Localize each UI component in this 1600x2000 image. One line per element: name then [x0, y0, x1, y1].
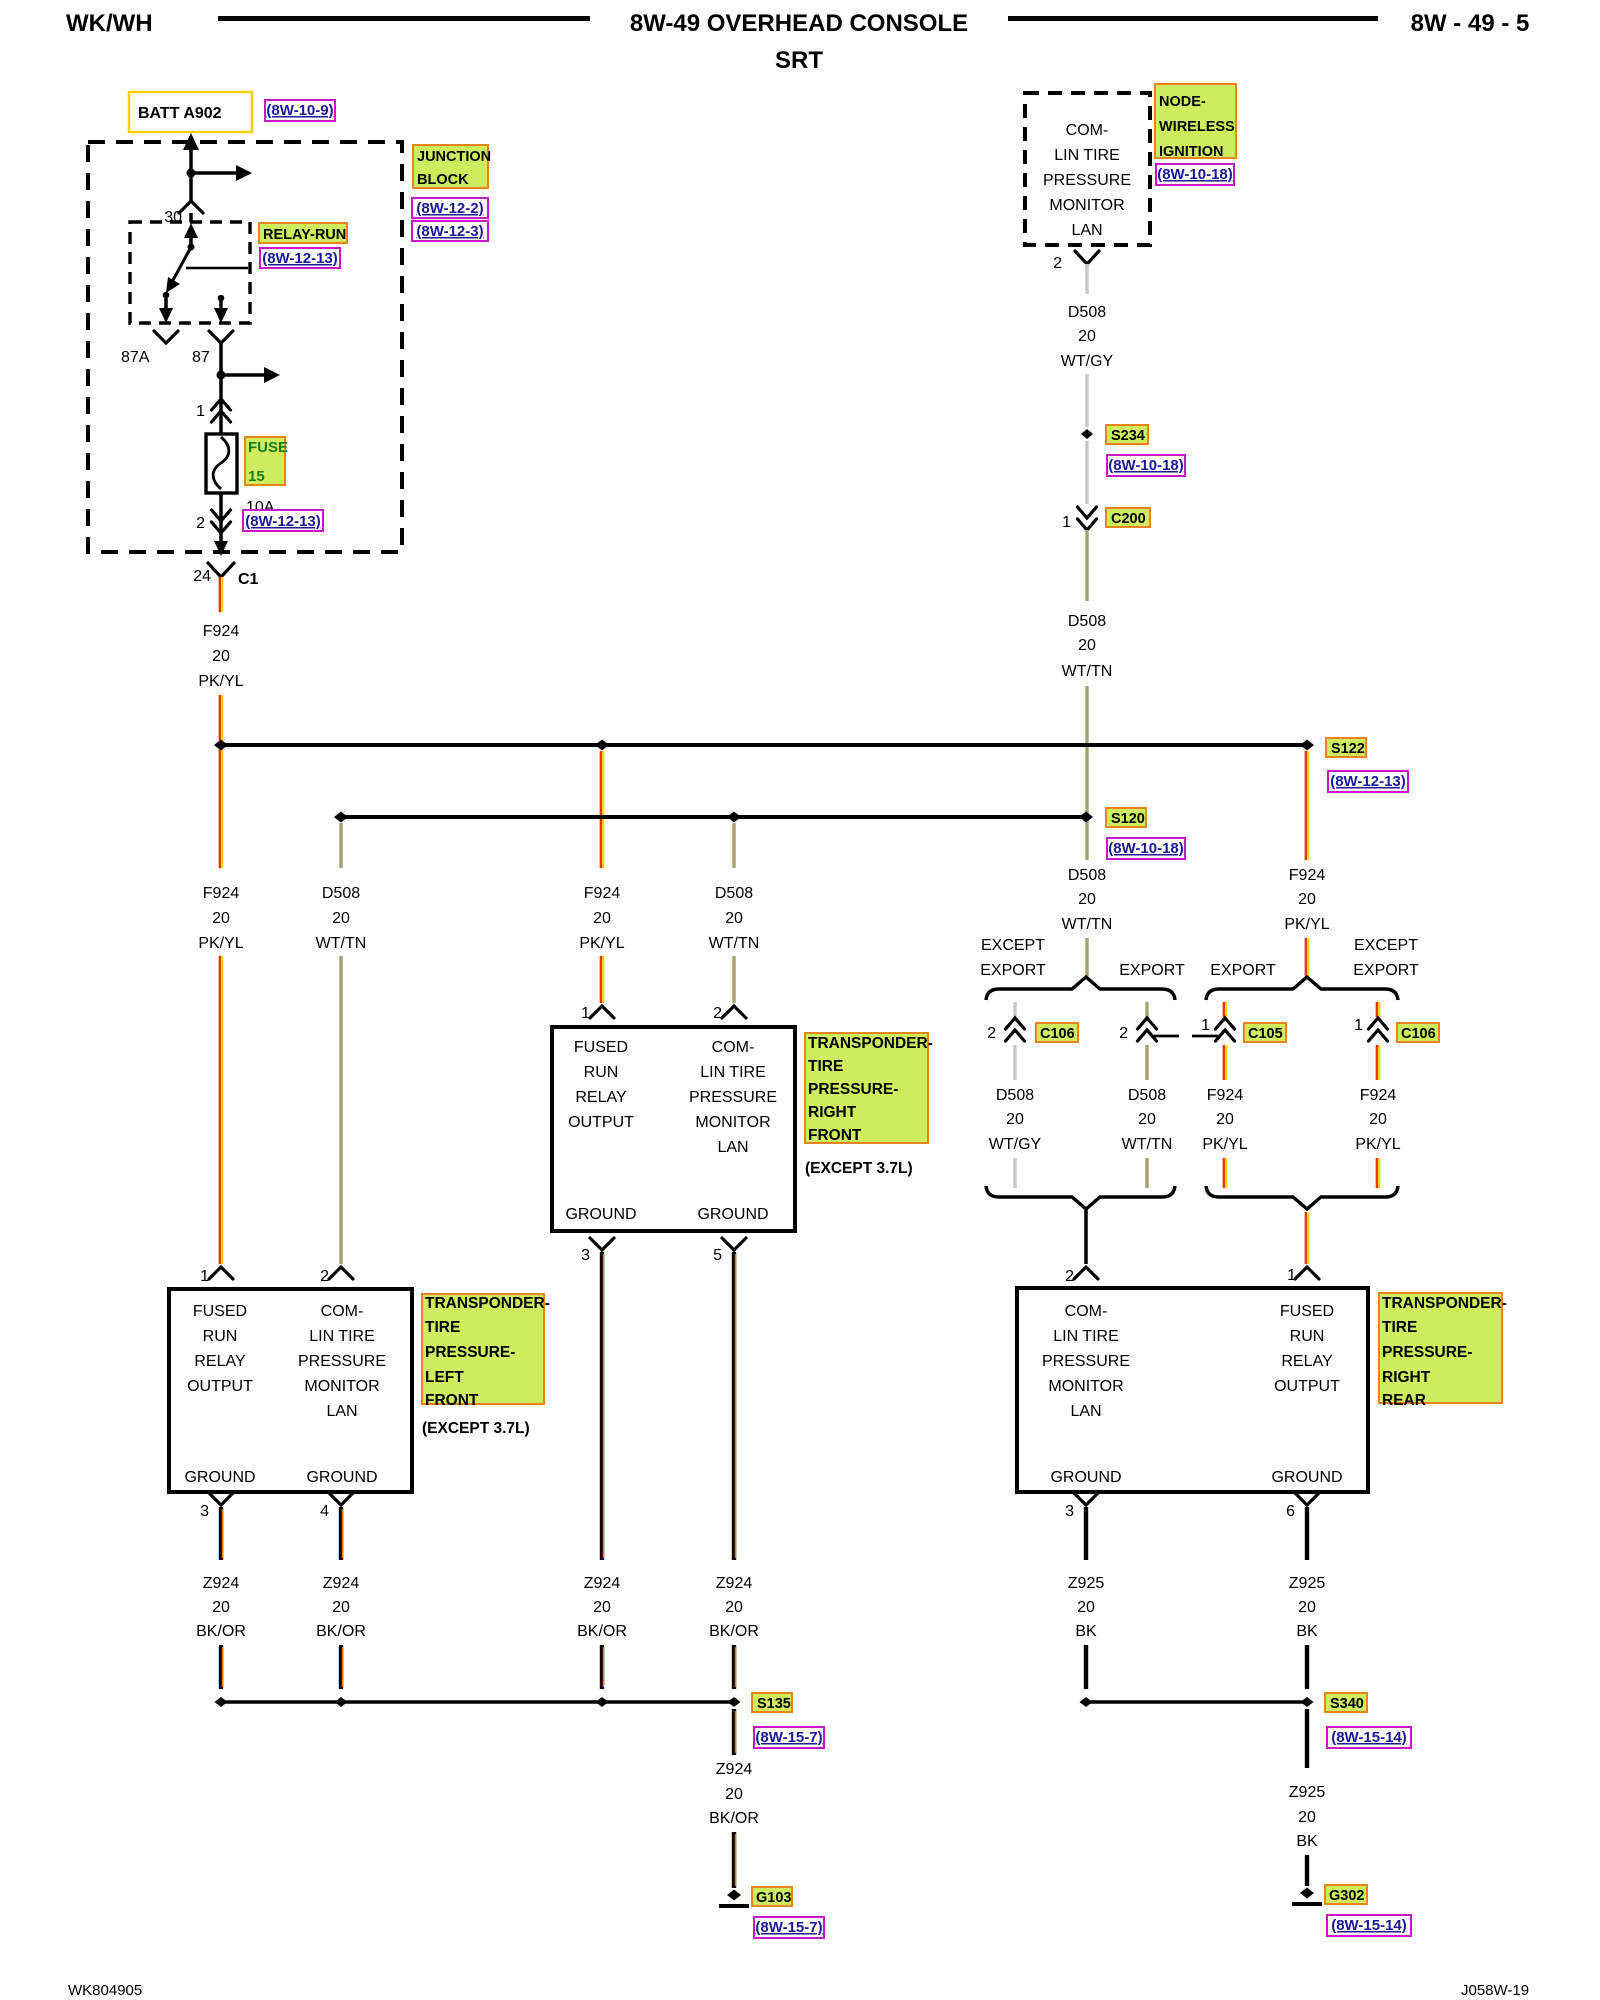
pin 87A: [121, 331, 178, 366]
svg-text:Z924: Z924: [203, 1575, 240, 1592]
label TRANSPONDER-TIRE PRESSURE-LEFT FRONT: [422, 1294, 550, 1409]
svg-text:PK/YL: PK/YL: [579, 935, 624, 952]
svg-text:D508: D508: [322, 885, 360, 902]
svg-text:EXCEPT: EXCEPT: [1354, 937, 1418, 954]
svg-text:WT/TN: WT/TN: [1062, 663, 1113, 680]
note EXCEPT EXPORT left: [980, 937, 1046, 979]
svg-text:(8W-15-14): (8W-15-14): [1331, 1729, 1407, 1746]
svg-text:C105: C105: [1248, 1026, 1283, 1042]
pin 1 middle device: [581, 1005, 614, 1022]
label F924 20 PK/YL right: [1284, 867, 1329, 933]
label Z924 20 BK/OR pin3: [196, 1575, 246, 1640]
label S120: [1106, 808, 1146, 827]
wire F924 PK/YL below C106 right: [1377, 1045, 1379, 1080]
svg-text:C106: C106: [1401, 1026, 1436, 1042]
pin 2 connector C105 mate: [1119, 1018, 1156, 1042]
svg-text:3: 3: [1065, 1503, 1074, 1520]
svg-text:TRANSPONDER-: TRANSPONDER-: [808, 1035, 933, 1052]
svg-text:FUSE: FUSE: [248, 439, 288, 456]
svg-text:PK/YL: PK/YL: [1355, 1136, 1400, 1153]
link (8W-10-18): [1156, 164, 1234, 185]
node splice S135: [728, 1697, 741, 1707]
fuse F15: [206, 434, 237, 493]
svg-text:8W-49 OVERHEAD CONSOLE: 8W-49 OVERHEAD CONSOLE: [630, 10, 968, 37]
svg-text:PRESSURE: PRESSURE: [1043, 172, 1131, 189]
svg-text:FUSED: FUSED: [574, 1039, 628, 1056]
wire PK/YL stub to bottom brace right: [1377, 1158, 1379, 1188]
BUSLINES: [214, 738, 1408, 859]
svg-text:TIRE: TIRE: [808, 1058, 843, 1075]
svg-text:BLOCK: BLOCK: [417, 172, 469, 188]
svg-text:20: 20: [725, 1786, 743, 1803]
wire branch arrow right: [191, 165, 252, 181]
svg-text:Z925: Z925: [1289, 1575, 1326, 1592]
label Z925 20 BK pin3: [1068, 1575, 1105, 1640]
svg-text:WT/GY: WT/GY: [989, 1136, 1042, 1153]
svg-text:1: 1: [200, 1268, 209, 1285]
svg-text:PK/YL: PK/YL: [1202, 1136, 1247, 1153]
pin 30: [164, 201, 203, 226]
wire F924 PK/YL to middle device pin 1: [601, 956, 603, 1003]
wire D508 WT/TN from C200: [1085, 530, 1088, 601]
svg-text:COM-: COM-: [321, 1303, 364, 1320]
wire D508 WT/TN to middle device pin 2: [732, 956, 735, 1003]
device U2 TRANSPONDER-TIRE PRESSURE-RIGHT FRONT: [552, 1027, 795, 1231]
svg-text:PK/YL: PK/YL: [1284, 916, 1329, 933]
svg-text:WK804905: WK804905: [68, 1982, 142, 1999]
svg-text:F924: F924: [584, 885, 621, 902]
pin 1 connector C106 right: [1354, 1017, 1387, 1041]
svg-text:J058W-19: J058W-19: [1461, 1982, 1529, 1999]
svg-text:S120: S120: [1111, 811, 1145, 827]
link (8W-10-18): [1107, 455, 1185, 476]
svg-text:D508: D508: [1128, 1087, 1166, 1104]
svg-text:20: 20: [1369, 1111, 1387, 1128]
svg-text:PRESSURE-: PRESSURE-: [425, 1344, 515, 1361]
svg-text:(8W-10-18): (8W-10-18): [1108, 840, 1184, 857]
svg-text:RELAY-RUN: RELAY-RUN: [263, 227, 346, 243]
node junction S135 a: [215, 1697, 228, 1707]
svg-text:GROUND: GROUND: [565, 1206, 636, 1223]
link (8W-10-18): [1107, 838, 1185, 859]
node junction S135 b: [335, 1697, 348, 1707]
wire D508 WT/TN from S120 to middle device: [732, 823, 735, 868]
EXPORT: [980, 937, 1439, 1264]
label S135: [752, 1693, 792, 1712]
relay terminal 87A arrow: [159, 292, 173, 323]
svg-text:BK: BK: [1296, 1623, 1318, 1640]
svg-text:4: 4: [320, 1503, 329, 1520]
svg-text:TIRE: TIRE: [1382, 1319, 1417, 1336]
junction block dashed box: [88, 142, 402, 552]
svg-text:F924: F924: [203, 885, 240, 902]
svg-text:RUN: RUN: [1290, 1328, 1325, 1345]
svg-text:20: 20: [1298, 891, 1316, 908]
pin 87: [192, 331, 233, 366]
svg-text:OUTPUT: OUTPUT: [187, 1378, 253, 1395]
relay switch blade: [166, 247, 191, 293]
label F924 20 PK/YL: [198, 623, 243, 690]
node splice S122: [1300, 740, 1314, 751]
svg-text:NODE-: NODE-: [1159, 94, 1206, 110]
svg-text:TIRE: TIRE: [425, 1319, 460, 1336]
svg-text:PRESSURE-: PRESSURE-: [1382, 1344, 1472, 1361]
header rule left: [218, 16, 590, 21]
relay contact 30 arrow: [184, 223, 198, 251]
svg-text:MONITOR: MONITOR: [1048, 1378, 1123, 1395]
svg-text:LIN TIRE: LIN TIRE: [309, 1328, 375, 1345]
pin 2 right device: [1065, 1267, 1098, 1285]
label NODE-WIRELESS IGNITION: [1155, 84, 1236, 160]
svg-text:WT/GY: WT/GY: [1061, 353, 1114, 370]
label C105: [1244, 1023, 1286, 1042]
node junction dot: [217, 371, 226, 380]
svg-text:(8W-12-3): (8W-12-3): [416, 223, 483, 240]
wire Z925 BK to S340: [1305, 1645, 1309, 1689]
label Z925 20 BK ground leg: [1289, 1784, 1326, 1850]
label F924 20 PK/YL left column: [198, 885, 243, 952]
wire F924 PK/YL to bus S122: [220, 695, 222, 868]
wire PK/YL stub to export brace: [1306, 938, 1308, 976]
svg-text:(8W-12-13): (8W-12-13): [245, 513, 321, 530]
wire WT/TN stub to bottom brace: [1145, 1158, 1148, 1188]
pin 2 fuse: [196, 510, 230, 533]
pin 1 connector C105: [1201, 1017, 1234, 1041]
LEFTTOP: [88, 92, 491, 588]
node splice S234: [1081, 429, 1093, 439]
svg-text:G103: G103: [756, 1890, 791, 1906]
label Z924 20 BK/OR pin4: [316, 1575, 366, 1640]
node junction S122 mid: [595, 740, 609, 751]
svg-text:(8W-15-14): (8W-15-14): [1331, 1917, 1407, 1934]
svg-text:20: 20: [212, 910, 230, 927]
svg-text:2: 2: [1053, 255, 1062, 272]
node junction dot: [187, 169, 196, 178]
pin 6 right device: [1286, 1493, 1319, 1520]
svg-text:PRESSURE-: PRESSURE-: [808, 1081, 898, 1098]
link (8W-15-14): [1327, 1915, 1411, 1936]
link (8W-15-7): [754, 1727, 824, 1748]
node splice S340: [1301, 1697, 1314, 1707]
link (8W-12-13): [1328, 771, 1408, 792]
wire D508 WT/GY to S234: [1085, 374, 1089, 427]
label D508 20 WT/GY: [989, 1087, 1042, 1153]
svg-text:20: 20: [212, 1599, 230, 1616]
label F924 20 PK/YL: [1202, 1087, 1247, 1153]
svg-text:Z924: Z924: [716, 1575, 753, 1592]
brace merge right group bottom: [1206, 1186, 1398, 1209]
wire PK/YL stub to bottom brace: [1224, 1158, 1226, 1188]
svg-text:BK/OR: BK/OR: [577, 1623, 627, 1640]
header rule right: [1008, 16, 1378, 21]
svg-text:RUN: RUN: [584, 1064, 619, 1081]
wire WT/GY to C200: [1085, 441, 1089, 504]
label C106 right: [1397, 1023, 1439, 1042]
wire D508 WT/GY: [1085, 264, 1089, 294]
svg-text:GROUND: GROUND: [184, 1469, 255, 1486]
wire Z924 BK/OR from middle device pin 5: [734, 1252, 736, 1560]
wire WT/GY branch stub: [1013, 1002, 1017, 1017]
svg-text:OUTPUT: OUTPUT: [568, 1114, 634, 1131]
svg-text:MONITOR: MONITOR: [695, 1114, 770, 1131]
svg-text:FUSED: FUSED: [1280, 1303, 1334, 1320]
link (8W-15-14): [1327, 1727, 1411, 1748]
wire PK/YL branch stub: [1224, 1002, 1226, 1017]
FOOTER: [68, 1982, 1529, 1999]
wire link line between export connectors: [1153, 1035, 1219, 1038]
pin 1 left device: [200, 1267, 233, 1285]
svg-text:87: 87: [192, 349, 210, 366]
label D508 20 WT/TN: [1062, 613, 1113, 680]
svg-text:20: 20: [725, 910, 743, 927]
svg-text:PK/YL: PK/YL: [198, 935, 243, 952]
svg-text:2: 2: [1119, 1025, 1128, 1042]
svg-text:S234: S234: [1111, 428, 1145, 444]
svg-text:87A: 87A: [121, 349, 150, 366]
svg-text:20: 20: [212, 648, 230, 665]
label TRANSPONDER-TIRE PRESSURE-RIGHT FRONT: [805, 1033, 933, 1144]
svg-text:20: 20: [1078, 891, 1096, 908]
label G103: [752, 1887, 792, 1906]
label C106: [1036, 1023, 1078, 1042]
svg-text:LIN TIRE: LIN TIRE: [1054, 147, 1120, 164]
svg-text:Z925: Z925: [1289, 1784, 1326, 1801]
svg-text:20: 20: [332, 910, 350, 927]
label D508 20 WT/TN: [1122, 1087, 1173, 1153]
pin 2 middle device: [713, 1005, 746, 1022]
svg-text:2: 2: [987, 1025, 996, 1042]
wire battery feed: [183, 133, 199, 201]
svg-text:WK/WH: WK/WH: [66, 10, 153, 37]
link (8W-12-13): [243, 510, 323, 531]
DEVICES: [169, 1005, 1507, 1520]
bus wire S340: [1086, 1700, 1307, 1704]
brace merge left group bottom: [986, 1186, 1175, 1209]
svg-text:PRESSURE: PRESSURE: [689, 1089, 777, 1106]
svg-text:JUNCTION: JUNCTION: [417, 149, 491, 165]
label D508 20 WT/TN below S120: [1062, 867, 1113, 933]
label Z925 20 BK pin6: [1289, 1575, 1326, 1640]
link (8W-10-9): [265, 100, 335, 121]
svg-text:20: 20: [593, 1599, 611, 1616]
label D508 20 WT/TN left: [316, 885, 367, 952]
wire D508 WT/TN to left device pin 2: [339, 956, 342, 1264]
node junction S135 c: [596, 1697, 609, 1707]
svg-text:F924: F924: [203, 623, 240, 640]
label S340: [1325, 1693, 1367, 1712]
svg-text:(8W-12-13): (8W-12-13): [1330, 773, 1406, 790]
svg-text:BK: BK: [1296, 1833, 1318, 1850]
svg-text:FRONT: FRONT: [425, 1392, 479, 1409]
link (8W-12-2): [412, 198, 488, 218]
svg-text:(EXCEPT 3.7L): (EXCEPT 3.7L): [805, 1160, 913, 1177]
svg-text:(8W-15-7): (8W-15-7): [755, 1729, 822, 1746]
svg-text:D508: D508: [1068, 613, 1106, 630]
wire Z924 BK/OR from middle device pin 3: [602, 1252, 604, 1560]
pin 3 middle device: [581, 1238, 614, 1264]
battery BATT A902: [129, 92, 252, 132]
svg-text:20: 20: [1006, 1111, 1024, 1128]
wire D508 WT/TN below: [1145, 1045, 1148, 1080]
svg-text:FRONT: FRONT: [808, 1127, 862, 1144]
svg-text:1: 1: [581, 1005, 590, 1022]
svg-text:REAR: REAR: [1382, 1392, 1426, 1409]
svg-text:S135: S135: [757, 1696, 791, 1712]
svg-text:3: 3: [581, 1247, 590, 1264]
svg-text:20: 20: [1298, 1599, 1316, 1616]
svg-text:2: 2: [320, 1268, 329, 1285]
wire D508 WT/TN to S120 and below: [1085, 686, 1088, 860]
svg-text:1: 1: [1201, 1017, 1210, 1034]
relay RELAY-RUN dashed box: [130, 213, 250, 323]
HEADER: [66, 10, 1529, 74]
BUSES: [198, 577, 759, 1264]
svg-text:FUSED: FUSED: [193, 1303, 247, 1320]
svg-text:EXPORT: EXPORT: [1353, 962, 1419, 979]
pin 4 left device: [320, 1493, 353, 1520]
wire to right device pin 2: [1084, 1209, 1088, 1264]
svg-text:LAN: LAN: [326, 1403, 357, 1420]
pin 5 middle device: [713, 1238, 746, 1264]
GROUNDS: [196, 1252, 1411, 1938]
svg-text:(8W-10-18): (8W-10-18): [1108, 457, 1184, 474]
svg-text:BATT A902: BATT A902: [138, 105, 222, 122]
svg-text:PRESSURE: PRESSURE: [298, 1353, 386, 1370]
wire WT/TN stub to export brace: [1085, 938, 1088, 976]
svg-text:WT/TN: WT/TN: [1062, 916, 1113, 933]
svg-text:20: 20: [1077, 1599, 1095, 1616]
wire Z925 BK below S340: [1305, 1709, 1309, 1768]
pin 2 node: [1053, 251, 1099, 272]
svg-text:BK: BK: [1075, 1623, 1097, 1640]
svg-text:(8W-12-2): (8W-12-2): [416, 200, 483, 217]
svg-text:5: 5: [713, 1247, 722, 1264]
svg-text:1: 1: [1287, 1267, 1296, 1284]
wire Z924 BK/OR from left device pin 3: [221, 1507, 223, 1560]
wire F924 PK/YL to left device pin 1: [220, 956, 222, 1264]
svg-text:IGNITION: IGNITION: [1159, 144, 1223, 160]
wire Z924 BK/OR to S135: [221, 1645, 223, 1689]
relay terminal 87 arrow: [214, 295, 228, 323]
node junction S340 a: [1080, 1697, 1093, 1707]
svg-text:BK/OR: BK/OR: [316, 1623, 366, 1640]
link (8W-12-3): [412, 221, 488, 241]
svg-text:20: 20: [1078, 328, 1096, 345]
svg-text:F924: F924: [1207, 1087, 1244, 1104]
svg-text:RIGHT: RIGHT: [808, 1104, 857, 1121]
wire branch arrow right: [221, 367, 280, 383]
svg-text:20: 20: [1078, 637, 1096, 654]
ground G103: [719, 1890, 749, 1907]
brace split left group top: [986, 977, 1175, 1000]
svg-text:3: 3: [200, 1503, 209, 1520]
node splice S120: [1079, 812, 1093, 823]
svg-text:F924: F924: [1289, 867, 1326, 884]
svg-text:1: 1: [1062, 514, 1071, 531]
svg-text:C106: C106: [1040, 1026, 1075, 1042]
svg-text:20: 20: [1298, 1809, 1316, 1826]
svg-text:C1: C1: [238, 571, 259, 588]
wire Z925 BK from right device pin 3: [1084, 1507, 1088, 1560]
wire F924 PK/YL to right device pin 1: [1306, 1212, 1308, 1264]
brace split right group top: [1206, 977, 1398, 1000]
svg-text:GROUND: GROUND: [697, 1206, 768, 1223]
RIGHTTOP: [1025, 84, 1330, 976]
svg-text:LEFT: LEFT: [425, 1369, 464, 1386]
svg-text:(8W-15-7): (8W-15-7): [755, 1919, 822, 1936]
svg-text:EXPORT: EXPORT: [980, 962, 1046, 979]
svg-text:S122: S122: [1331, 741, 1365, 757]
svg-text:LIN TIRE: LIN TIRE: [700, 1064, 766, 1081]
wire PK/YL branch stub right: [1377, 1002, 1379, 1017]
wire Z925 BK to G302: [1305, 1855, 1309, 1886]
label C200: [1106, 508, 1150, 527]
svg-text:(8W-10-9): (8W-10-9): [266, 102, 333, 119]
svg-text:(EXCEPT 3.7L): (EXCEPT 3.7L): [422, 1420, 530, 1437]
svg-text:20: 20: [593, 910, 611, 927]
svg-text:D508: D508: [1068, 304, 1106, 321]
svg-text:(8W-10-18): (8W-10-18): [1157, 166, 1233, 183]
pin 3 left device: [200, 1493, 233, 1520]
pin 1 connector C200: [1062, 507, 1096, 531]
pin 2 connector C106 left: [987, 1018, 1024, 1042]
label Z924 20 BK/OR pin3 middle: [577, 1575, 627, 1640]
label FUSE 15: [245, 437, 288, 485]
wire 87 to fuse: [219, 343, 223, 436]
wire Z924 BK/OR to S135: [734, 1645, 736, 1689]
link (8W-15-7): [754, 1917, 824, 1938]
svg-text:Z924: Z924: [716, 1761, 753, 1778]
svg-text:RIGHT: RIGHT: [1382, 1369, 1431, 1386]
label D508 20 WT/TN middle: [709, 885, 760, 952]
svg-text:BK/OR: BK/OR: [196, 1623, 246, 1640]
label F924 20 PK/YL middle: [579, 885, 624, 952]
label D508 20 WT/GY: [1061, 304, 1114, 370]
svg-text:24: 24: [193, 568, 211, 585]
svg-text:SRT: SRT: [775, 47, 823, 74]
label G302: [1325, 1885, 1367, 1904]
svg-text:Z924: Z924: [584, 1575, 621, 1592]
svg-text:MONITOR: MONITOR: [304, 1378, 379, 1395]
pin 2 left device: [320, 1267, 353, 1285]
wire D508 WT/GY below C106: [1013, 1045, 1017, 1080]
node box COM-LIN TIRE PRESSURE MONITOR LAN (dashed): [1025, 93, 1150, 245]
svg-text:COM-: COM-: [712, 1039, 755, 1056]
svg-text:WT/TN: WT/TN: [316, 935, 367, 952]
wire F924 PK/YL from S122 down: [1306, 751, 1308, 860]
link (8W-12-13): [260, 248, 340, 268]
svg-text:EXPORT: EXPORT: [1210, 962, 1276, 979]
svg-text:LIN TIRE: LIN TIRE: [1053, 1328, 1119, 1345]
svg-text:LAN: LAN: [1071, 222, 1102, 239]
svg-text:PK/YL: PK/YL: [198, 673, 243, 690]
svg-text:G302: G302: [1329, 1888, 1364, 1904]
wire Z924 BK/OR to G103: [734, 1832, 736, 1888]
svg-text:RELAY: RELAY: [194, 1353, 246, 1370]
pin 1 fuse: [196, 399, 230, 422]
svg-text:EXCEPT: EXCEPT: [981, 937, 1045, 954]
wire WT/TN branch stub: [1145, 1002, 1148, 1017]
label S122: [1326, 738, 1366, 757]
svg-text:20: 20: [725, 1599, 743, 1616]
device U1 TRANSPONDER-TIRE PRESSURE-LEFT FRONT: [169, 1289, 412, 1492]
svg-text:PRESSURE: PRESSURE: [1042, 1353, 1130, 1370]
label F924 20 PK/YL right branch: [1355, 1087, 1400, 1153]
node junction S122 left: [214, 740, 228, 751]
svg-text:F924: F924: [1360, 1087, 1397, 1104]
svg-text:1: 1: [1354, 1017, 1363, 1034]
pin 3 right device: [1065, 1493, 1098, 1520]
